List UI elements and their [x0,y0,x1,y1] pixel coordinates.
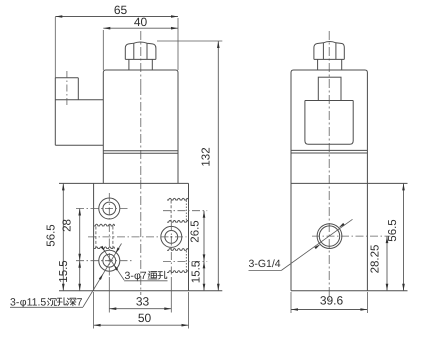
dimension 26.5 right [203,211,205,262]
nut bottom edge [125,58,156,60]
block top edge side view + ext to 56.5 dim [291,182,408,184]
coil bottom line 1 side view [291,149,367,151]
dimension 33 (port spacing horizontal) [109,308,171,310]
svg-text:132: 132 [201,147,213,166]
solenoid coil body + valve tube left view [103,70,178,183]
mounting block (valve body) left view [93,183,95,290]
svg-text:28.25: 28.25 [370,245,382,274]
extension line 65-dim left / connector left face [54,17,56,78]
P2 vertical centerline [170,223,172,276]
connector cable-gland centerline [66,71,68,108]
extension below block left for 50 dim [93,292,95,329]
svg-text:3-: 3- [125,270,135,282]
dimension 65 (overall width) [55,16,178,18]
extension below side block right [366,292,368,313]
block bottom edge side view + ext [291,290,408,292]
extension line 33-dim left [108,277,110,313]
svg-text:15.5: 15.5 [58,260,70,282]
side thread hole (right face, lower) wavy texture [167,249,188,251]
svg-text:56.5: 56.5 [387,219,399,241]
dimension 132 (overall height) [217,41,219,291]
svg-text:33: 33 [136,294,150,308]
dimension 56.5 right view [403,183,405,290]
inner step rectangle (small) side view [318,77,341,100]
leader line for counterbore label (3-phi11.5 deep 7) [83,244,122,308]
P1/P3 vertical centerline lower part [108,224,110,276]
nut stem left view [128,59,130,70]
G1/4 port circle (thread) side view [317,224,342,249]
side thread hole (left face of block) wavy texture [94,224,115,226]
port P3 bottom-left (counterbore + through hole) [99,250,120,271]
dimension 40 (coil width) [103,27,178,29]
svg-text:15.5: 15.5 [191,261,203,283]
dimension 56.5 (block height) left [62,183,64,290]
extension below block right for 50 dim [188,292,190,329]
P1/P3 vertical centerline upper part [108,193,110,222]
coil bottom line 1 left view [103,150,178,152]
svg-text:65: 65 [114,3,128,17]
inner step rectangle (large) side view [305,101,353,145]
svg-text:7: 7 [77,297,83,309]
extension line top for 132 dim [157,40,222,42]
leader for 3-G1/4 label [281,219,352,270]
P1 horizontal centerline [76,208,128,210]
DIN connector housing [55,77,78,79]
svg-text:3-G1/4: 3-G1/4 [249,258,281,270]
upper thread axis / ext for 26.5 [163,210,207,212]
dimension 28 (port spacing) [79,209,81,261]
svg-text:39.6: 39.6 [320,294,344,308]
dimension 50 (block width) [94,324,189,326]
svg-text:40: 40 [134,15,148,29]
svg-text:50: 50 [138,311,152,325]
block bottom edge + extensions to dims both sides [59,290,222,292]
side thread hole (right face, upper) wavy texture [167,198,188,200]
extension below side block left [290,292,292,313]
svg-text:7: 7 [141,270,147,282]
coil + body column side view [291,70,367,291]
block top edge + extension to 56.5 dim [59,182,189,184]
hex nut side view [314,42,344,60]
leader line for through-hole label (3-phi7) [102,247,124,280]
underline of G1/4 label [249,270,282,272]
hex nut (manual override) left view [125,42,156,59]
dimension 15.5 left [79,261,81,291]
coil bottom line 2 side view [291,152,367,154]
nut stem side view [317,59,319,70]
underline of through-hole label [124,280,167,282]
extension line 33-dim right [170,277,172,313]
P3 horizontal centerline [76,260,133,262]
port P2 right (counterbore + through hole) [161,226,182,247]
underline of counterbore label [10,306,83,308]
centerline left view (vertical axis) [140,31,142,86]
port P1 top (counterbore + through hole) [99,198,120,219]
svg-text:11.5: 11.5 [27,297,47,309]
coil bottom line 2 left view [103,152,178,154]
dimension 39.6 (block depth) [291,309,367,311]
dimension 28.25 right view [386,236,388,291]
svg-text:26.5: 26.5 [190,220,202,242]
P2 horizontal centerline / left thread axis [88,236,187,238]
svg-text:56.5: 56.5 [46,224,58,246]
svg-text:3-: 3- [10,297,20,309]
extension line left for 40 dim [102,30,104,70]
lower thread axis / ext for 26.5-15.5 [163,260,207,262]
G1/4 port horizontal centerline + ext for 28.25 [312,235,390,237]
centerline right view (vertical axis) [328,31,330,300]
dimension 15.5 right [203,261,205,290]
svg-text:28: 28 [62,219,74,232]
extension line right for 65/40 dims [177,18,179,70]
nut bottom edge side view [314,58,344,60]
